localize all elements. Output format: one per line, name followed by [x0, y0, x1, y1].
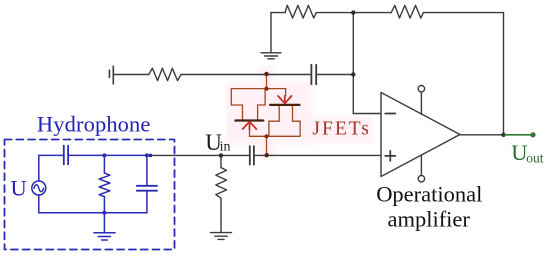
JFET Q1 pedestal right step	[258, 104, 266, 106]
source top lead	[38, 155, 40, 181]
capacitor C4	[137, 185, 157, 187]
svg-text:Operational: Operational	[376, 182, 482, 207]
JFET Q1 gate lead	[249, 129, 251, 137]
JFET Q1 pedestal left vertical	[230, 89, 232, 105]
JFET Q1 channel bar	[235, 119, 263, 121]
resistor R4	[216, 168, 227, 199]
resistor R5 lead top	[103, 155, 105, 173]
JFET Q1 pedestal left step	[231, 104, 242, 106]
U_in wire from hydrophone	[151, 154, 250, 156]
junction top bar dot	[264, 87, 268, 91]
JFET Q2 step left	[269, 120, 279, 122]
op-amp bottom power pin	[420, 155, 422, 175]
wire R1 to node F top	[316, 12, 391, 14]
wire R3 to C1	[181, 74, 311, 76]
JFET Q1 stem left	[242, 105, 244, 119]
output wire	[460, 134, 504, 136]
wire bottom horizontal bar	[250, 135, 301, 137]
resistor R2	[391, 5, 423, 18]
bottom wire	[39, 212, 147, 214]
node U_out dot	[530, 132, 535, 137]
resistor R4 lead top	[220, 155, 222, 167]
svg-text:U: U	[11, 175, 27, 200]
JFET Q1 stem right	[257, 105, 259, 119]
junction bottom tap dot	[265, 153, 269, 157]
hydrophone dashed box	[5, 140, 175, 250]
capacitor C4 lead top	[146, 155, 148, 185]
ground G3	[94, 232, 115, 234]
wire top horizontal bar	[231, 88, 285, 90]
wire C1 to node F	[317, 74, 353, 76]
JFET Q2 step right	[293, 120, 301, 122]
JFET Q2 channel bar	[270, 104, 299, 106]
junction hydro bottom dot	[102, 211, 106, 215]
wire C2 to op-amp plus	[255, 154, 381, 156]
svg-text:out: out	[526, 151, 544, 166]
ground G1	[261, 52, 281, 54]
JFET Q2 outer right vertical	[299, 121, 301, 136]
wire U_out	[504, 134, 533, 136]
wire source to C3	[39, 154, 63, 156]
wire top tap vertical	[266, 74, 268, 89]
ground G2	[211, 232, 232, 234]
ground lead G3	[103, 213, 105, 233]
capacitor C3	[63, 146, 65, 165]
svg-text:in: in	[220, 140, 231, 155]
op-amp top power pin	[420, 92, 422, 114]
junction hydro top R5 dot	[102, 153, 106, 157]
pink jpeg halo under JFET network	[226, 66, 372, 158]
resistor R1	[285, 5, 316, 18]
capacitor C1	[310, 65, 312, 84]
resistor R5 lead bottom	[103, 197, 105, 213]
source V1 circle	[32, 181, 46, 195]
right vertical from R2 to output	[503, 13, 505, 135]
svg-text:Hydrophone: Hydrophone	[37, 112, 150, 137]
ground lead G1	[270, 13, 272, 53]
wire R2 to right corner	[424, 12, 504, 14]
JFET Q2 stem left	[278, 106, 280, 121]
JFET Q2 outer left vertical	[268, 121, 270, 136]
wire T1 to R3	[113, 74, 149, 76]
junction node F top dot	[351, 10, 355, 14]
top wire left segment	[271, 12, 285, 14]
terminal T1 short bar	[108, 70, 110, 77]
resistor R3	[149, 68, 181, 80]
junction top tap dot	[264, 72, 268, 76]
JFET Q2 gate arrow	[278, 96, 291, 104]
terminal T1 tall bar	[112, 66, 114, 84]
junction bottom bar dot	[264, 134, 268, 138]
resistor R5	[99, 173, 110, 197]
capacitor C4 lead bottom	[146, 191, 148, 213]
wire bottom tap vertical	[266, 136, 268, 155]
wire to op-amp minus	[353, 113, 381, 115]
junction hydro top C4 dot	[145, 153, 149, 157]
op-amp U1 triangle	[381, 93, 460, 177]
capacitor C2	[249, 146, 251, 164]
op-amp minus sign	[385, 113, 395, 115]
resistor R4 lead bottom	[220, 198, 222, 232]
wire C3 to box edge	[69, 154, 151, 156]
JFET Q1 pedestal right vertical	[264, 89, 266, 105]
JFET Q2 stem right	[292, 106, 294, 121]
junction output dot	[501, 133, 505, 137]
feedback vertical node F	[352, 13, 354, 114]
JFET Q2 gate lead	[285, 89, 287, 96]
op-amp plus sign	[385, 155, 395, 157]
JFET Q1 gate arrow	[243, 122, 257, 130]
source bottom lead	[38, 195, 40, 213]
svg-text:U: U	[511, 140, 527, 165]
hydrophone output terminal dot	[149, 154, 153, 158]
source V1 sine	[34, 185, 44, 192]
svg-text:amplifier: amplifier	[387, 207, 470, 232]
junction node F mid dot	[351, 72, 355, 76]
junction U_in/R4 dot	[219, 153, 223, 157]
